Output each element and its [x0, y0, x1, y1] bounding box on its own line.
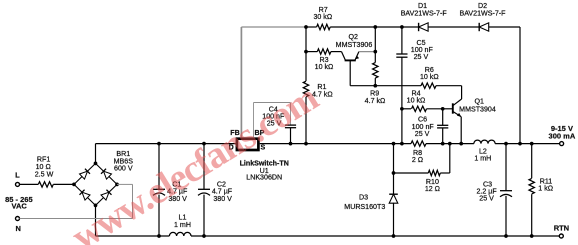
- junction Q1 base node: [441, 107, 445, 111]
- junction C2 top: [202, 142, 206, 146]
- wire D3 node to R8: [394, 143, 412, 145]
- wire Q2 base row: [350, 85, 421, 87]
- svg-text:L: L: [15, 171, 20, 180]
- svg-text:MURS160T3: MURS160T3: [344, 203, 385, 211]
- svg-text:10 kΩ: 10 kΩ: [407, 97, 426, 105]
- wire R9 column top: [374, 27, 376, 52]
- terminal N (neutral input): [16, 217, 20, 221]
- transistor Q1 MMST3904: [452, 103, 454, 113]
- svg-text:Q2: Q2: [348, 33, 358, 41]
- terminal output 9-15V: [560, 142, 564, 146]
- svg-text:MMST3904: MMST3904: [459, 106, 496, 114]
- junction C3 bottom: [504, 234, 508, 238]
- wire L2 to output: [495, 143, 559, 145]
- BR1 diode bottom-left: [82, 192, 90, 200]
- wire N to bridge (gray): [20, 218, 133, 220]
- BR1 diode top-right: [104, 171, 112, 179]
- svg-text:2 Ω: 2 Ω: [412, 156, 423, 164]
- junction bridge bottom: [94, 204, 98, 208]
- resistor R6: [421, 83, 436, 88]
- wire Q2 emitter to R9 top (gray): [359, 51, 375, 53]
- junction C5 column bottom: [400, 142, 404, 146]
- wire C5 column to source row: [401, 109, 403, 144]
- resistor RF1: [38, 182, 53, 187]
- svg-text:25 V: 25 V: [414, 53, 429, 61]
- bridge rectifier BR1 frame: [74, 163, 117, 205]
- transistor Q2 MMST3906: [345, 59, 356, 61]
- junction C4 bottom / source row: [289, 142, 293, 146]
- junction C5/R4 node: [400, 107, 404, 111]
- wire base node to Q1: [443, 108, 452, 110]
- svg-text:10 kΩ: 10 kΩ: [420, 73, 439, 81]
- capacitor C4: [285, 124, 296, 126]
- svg-text:30 kΩ: 30 kΩ: [313, 13, 332, 21]
- wire R8 to L2: [426, 143, 474, 145]
- junction bridge top: [94, 162, 98, 166]
- junction C1 top: [157, 142, 161, 146]
- wire FB pin (gray): [240, 27, 242, 137]
- BR1 diode bottom-right: [101, 192, 109, 200]
- wire Q1 emitter down: [460, 117, 462, 144]
- junction bias rail to output row: [518, 142, 522, 146]
- junction bridge left: [72, 183, 76, 187]
- junction D3 bottom: [392, 234, 396, 238]
- junction C1 bottom: [157, 234, 161, 238]
- wire DC+ rail (bridge to U1 drain): [96, 143, 236, 145]
- capacitor C1: [158, 144, 160, 190]
- wire RF1 to bridge: [53, 183, 74, 185]
- wire bridge top to DC+ rail: [95, 144, 97, 164]
- wire trunk to R1: [305, 52, 307, 81]
- svg-text:25 V: 25 V: [479, 195, 494, 203]
- op-amp U1 LNK306DN body: [237, 139, 259, 150]
- svg-text:MMST3906: MMST3906: [336, 41, 373, 49]
- junction R9 emitter node: [373, 50, 377, 54]
- capacitor C2: [203, 144, 205, 190]
- svg-text:BAV21WS-7-F: BAV21WS-7-F: [460, 9, 507, 17]
- svg-text:300 mA: 300 mA: [549, 132, 576, 141]
- junction FB node: [304, 25, 308, 29]
- wire R9 upper lead: [374, 52, 376, 63]
- junction Q1 emitter / output row: [459, 142, 463, 146]
- wire trunk R7 node down to R3 node: [305, 27, 307, 52]
- junction C2 bottom: [202, 234, 206, 238]
- junction C5 top: [400, 25, 404, 29]
- junction C6 bottom: [441, 142, 445, 146]
- svg-text:1 kΩ: 1 kΩ: [538, 185, 553, 193]
- junction bridge right: [115, 183, 119, 187]
- svg-text:BAV21WS-7-F: BAV21WS-7-F: [401, 9, 448, 17]
- svg-text:600 V: 600 V: [114, 165, 133, 173]
- svg-text:25 V: 25 V: [415, 130, 430, 138]
- capacitor C6: [442, 109, 444, 125]
- junction R10 right top: [448, 142, 452, 146]
- wire BP pin to C4 (gray): [253, 103, 255, 138]
- wire R1 to source row: [305, 97, 307, 144]
- junction R11 bottom: [530, 234, 534, 238]
- junction D3 node: [392, 142, 396, 146]
- svg-text:380 V: 380 V: [213, 195, 232, 203]
- wire source row U1-S to D3: [260, 143, 394, 145]
- wire C5 upper lead: [401, 27, 403, 54]
- svg-text:N: N: [15, 224, 20, 233]
- wire D1 to D2: [428, 26, 479, 28]
- junction D3/R10 tap: [392, 171, 396, 175]
- resistor R4: [402, 108, 411, 110]
- junction C3 top: [504, 142, 508, 146]
- resistor R1: [303, 81, 308, 97]
- inductor L1: [169, 232, 191, 236]
- svg-text:LNK306DN: LNK306DN: [246, 174, 282, 182]
- capacitor C5: [396, 53, 407, 55]
- resistor R7: [306, 26, 317, 28]
- svg-text:12 Ω: 12 Ω: [425, 185, 440, 193]
- svg-text:D3: D3: [359, 194, 368, 202]
- wire L to RF1: [20, 183, 39, 185]
- junction R9 bottom: [373, 84, 377, 88]
- wire top rail to C5: [375, 26, 402, 28]
- svg-text:1 mH: 1 mH: [174, 221, 191, 229]
- wire return rail (bottom): [96, 235, 170, 237]
- junction R9 top: [373, 25, 377, 29]
- terminal RTN: [559, 234, 563, 238]
- resistor R8: [411, 141, 426, 146]
- resistor R9: [373, 63, 378, 79]
- diode D2 BAV21WS-7-F: [479, 23, 489, 31]
- svg-text:Q1: Q1: [474, 97, 484, 105]
- svg-text:VAC: VAC: [12, 201, 28, 210]
- wire R6 to Q1 collector: [461, 86, 463, 99]
- svg-text:4.7 kΩ: 4.7 kΩ: [365, 97, 386, 105]
- diode D1 BAV21WS-7-F: [419, 23, 429, 31]
- svg-text:10 kΩ: 10 kΩ: [315, 63, 334, 71]
- BR1 diode top-left: [80, 171, 88, 179]
- junction R11 top: [530, 142, 534, 146]
- svg-text:2.5 W: 2.5 W: [35, 171, 54, 179]
- wire bridge bottom to return rail: [95, 205, 97, 236]
- wire C5 to R4 node: [401, 57, 403, 109]
- resistor R10: [394, 172, 429, 174]
- svg-text:1 mH: 1 mH: [474, 155, 491, 163]
- junction R3 tap: [304, 50, 308, 54]
- wire C5 node to D1: [402, 26, 419, 28]
- resistor R3: [306, 51, 317, 53]
- wire D2 to output rail corner: [489, 26, 520, 28]
- capacitor C3: [505, 144, 507, 191]
- svg-text:RTN: RTN: [554, 224, 569, 233]
- inductor L2: [474, 140, 495, 144]
- wire R9 lower lead: [374, 78, 376, 86]
- terminal L (line input): [16, 182, 20, 186]
- resistor R11: [531, 144, 533, 179]
- diode D3 MURS160T3: [393, 144, 395, 173]
- junction R1 bottom: [304, 142, 308, 146]
